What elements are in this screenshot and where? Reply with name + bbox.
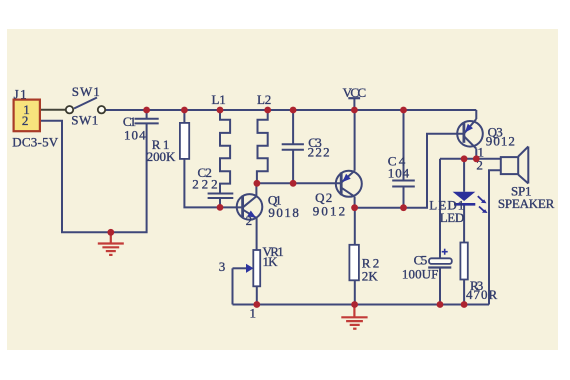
svg-text:104: 104 <box>124 128 146 143</box>
wire C1 top lead <box>146 110 148 119</box>
capacitor C3 <box>282 144 304 150</box>
wire C2 bottom lead <box>219 198 221 207</box>
LED LED1 <box>453 192 488 213</box>
transistor Q1 (NPN 9018) <box>237 194 263 220</box>
wire R2 bottom lead <box>354 280 356 304</box>
wire Q2 emitter lead to rail <box>354 110 356 171</box>
inductor L1 <box>220 110 230 194</box>
switch SW1 <box>66 98 105 114</box>
svg-text:1K: 1K <box>263 254 279 269</box>
wire Q3 collector lead <box>475 149 477 159</box>
wire J1 pin2 down and right to C1 bottom <box>39 121 147 233</box>
ground symbol center <box>341 305 367 329</box>
junction R3 bottom node <box>461 301 468 308</box>
wire Q2 collector node to Q3 base <box>355 134 464 208</box>
wire C3 top lead <box>292 110 294 144</box>
wire J1 pin1 to SW1 <box>39 109 66 111</box>
wire VR1 bottom lead <box>256 286 258 304</box>
capacitor C5 negative plate <box>428 266 451 268</box>
svg-text:2K: 2K <box>362 269 379 284</box>
junction VR1 bottom node <box>253 301 260 308</box>
svg-text:L2: L2 <box>257 92 271 107</box>
svg-text:LED: LED <box>440 210 465 225</box>
svg-text:SW1: SW1 <box>72 84 100 99</box>
resistor R2 <box>349 245 359 280</box>
wire rail corner into Q3 emitter <box>475 110 477 119</box>
transistor Q2 (PNP 9012) <box>336 171 362 197</box>
junction C4 bottom node <box>400 204 407 211</box>
plus sign of C5 <box>442 249 448 255</box>
power symbol VCC bar <box>348 97 360 99</box>
wire Q1 emitter to VR1 top <box>256 218 258 250</box>
svg-text:SPEAKER: SPEAKER <box>498 196 555 211</box>
junction R1/rail <box>181 107 188 114</box>
junction L1/rail <box>217 107 224 114</box>
capacitor C5 electrolytic positive plate <box>429 258 452 264</box>
wire Q2 collector lead <box>354 197 356 208</box>
svg-text:470R: 470R <box>466 287 498 302</box>
wire main VCC rail <box>106 109 477 111</box>
wire output node to speaker pin1 <box>440 158 501 160</box>
ground symbol left <box>98 232 124 255</box>
svg-text:1: 1 <box>250 306 257 321</box>
svg-text:C5: C5 <box>414 253 428 268</box>
wire R1 bottom to Q1 base <box>184 159 241 208</box>
svg-text:DC3-5V: DC3-5V <box>12 135 59 150</box>
junction C4/rail <box>400 107 407 114</box>
transistor Q3 (PNP 9012) <box>457 119 483 149</box>
wire C4 bottom lead <box>403 187 405 208</box>
junction LED branch node <box>461 155 468 162</box>
capacitor C1 <box>135 119 159 124</box>
junction L2 bottom node <box>254 180 261 187</box>
junction R2 bottom node <box>351 301 358 308</box>
wire LED top lead <box>463 159 465 192</box>
junction left ground node <box>107 229 114 236</box>
svg-text:100UF: 100UF <box>402 266 439 281</box>
wire VCC tick <box>353 98 355 110</box>
svg-text:222: 222 <box>308 145 330 160</box>
junction Q3 collector node <box>473 155 480 162</box>
wire node L2-bottom to Q2 base <box>257 182 341 184</box>
svg-text:SW1: SW1 <box>71 112 98 127</box>
junction C3 bottom node <box>290 180 297 187</box>
svg-text:2: 2 <box>22 113 29 128</box>
svg-text:200K: 200K <box>147 149 176 164</box>
svg-text:L1: L1 <box>212 92 226 107</box>
junction C3/rail <box>290 107 297 114</box>
junction Q1 base node <box>217 204 224 211</box>
junction L2/rail <box>264 107 271 114</box>
svg-text:9018: 9018 <box>268 205 299 220</box>
wire speaker pin2 to bottom rail <box>489 170 501 304</box>
wire Q1 collector lead <box>255 183 257 196</box>
resistor R3 <box>460 243 467 280</box>
svg-text:J1: J1 <box>14 87 27 102</box>
junction C5 bottom node <box>437 301 444 308</box>
wire R3 bottom lead <box>463 280 465 305</box>
wire bottom rail <box>233 304 490 306</box>
svg-text:104: 104 <box>388 166 410 181</box>
capacitor C4 <box>392 181 415 187</box>
capacitor C2 <box>208 194 234 199</box>
svg-text:2: 2 <box>246 213 253 228</box>
connector J1 <box>14 100 40 132</box>
inductor L2 <box>257 110 268 183</box>
wire C3 bottom lead <box>292 150 294 184</box>
wire C5 bottom lead <box>439 268 441 305</box>
wire C4 top lead <box>403 110 405 181</box>
resistor R1 <box>180 123 189 159</box>
wire C5 branch down <box>439 159 441 258</box>
svg-text:222: 222 <box>192 177 217 192</box>
svg-text:9012: 9012 <box>486 134 515 149</box>
speaker SP1 <box>501 147 529 184</box>
junction C1/rail <box>143 107 150 114</box>
svg-text:3: 3 <box>219 259 226 274</box>
wire VR1 wiper drop <box>232 268 234 304</box>
potentiometer VR1 <box>233 250 261 286</box>
junction Q2 collector node <box>351 204 358 211</box>
wire R1 top lead <box>183 110 185 123</box>
junction VCC/rail <box>351 107 358 114</box>
wire R2 top lead <box>354 208 356 245</box>
wire LED cathode to R3 <box>463 204 465 242</box>
